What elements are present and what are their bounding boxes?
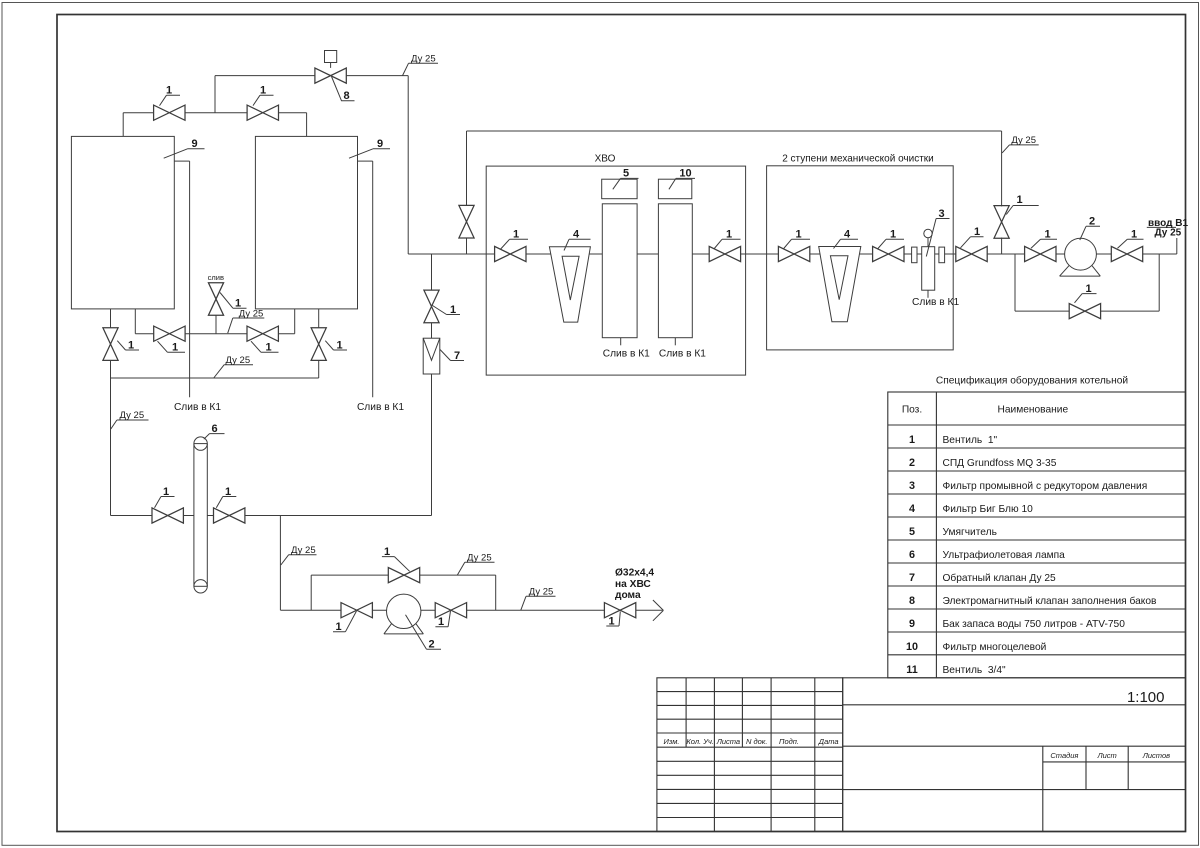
svg-text:2: 2 <box>1089 216 1095 228</box>
svg-text:Ду 25: Ду 25 <box>1011 135 1036 146</box>
svg-text:9: 9 <box>191 138 197 150</box>
label leader 1 (after inlet pump) <box>1118 239 1144 248</box>
valve 1 (lamp line right) <box>214 508 245 523</box>
wire: fill line y=75.6 <box>215 75 408 77</box>
label leader 1 (lamp left) <box>155 497 175 508</box>
svg-text:4: 4 <box>573 229 580 241</box>
wire: drop to house pump line x=280.4 <box>279 516 281 611</box>
svg-text:4: 4 <box>909 503 915 515</box>
label leader 8 <box>332 77 355 101</box>
wire: left drain to sewer <box>189 161 191 397</box>
label leader 10 <box>669 178 695 189</box>
svg-text:2: 2 <box>909 457 915 469</box>
valve 1 (after house pump) <box>435 603 466 618</box>
svg-text:1: 1 <box>172 342 178 354</box>
spec table outline <box>888 392 1186 678</box>
svg-text:Фильтр промывной с редкутором: Фильтр промывной с редкутором давления <box>943 481 1148 492</box>
wire: left tank top riser <box>122 113 124 137</box>
wire: inlet bypass line y=311.1 <box>1015 310 1159 312</box>
UV lamp 6 top cap <box>194 437 207 450</box>
wire: right drain to sewer <box>372 161 374 397</box>
svg-text:7: 7 <box>909 572 915 584</box>
title block left stamp outline <box>657 678 843 832</box>
svg-text:Поз.: Поз. <box>902 404 922 415</box>
valve 1 (lamp line left) <box>152 508 183 523</box>
label leader 1 (mech middle) <box>878 239 905 249</box>
svg-text:6: 6 <box>909 549 915 561</box>
svg-text:9: 9 <box>377 138 383 150</box>
wire: water inlet entry x=1176.8 <box>1176 238 1178 254</box>
svg-text:1: 1 <box>1131 229 1137 241</box>
svg-text:1: 1 <box>384 546 390 558</box>
svg-text:Слив в К1: Слив в К1 <box>357 402 404 413</box>
valve 1 (top manifold right) <box>247 105 278 120</box>
svg-text:Ду 25: Ду 25 <box>529 587 554 598</box>
wire: column 10 drain stub <box>674 338 676 346</box>
label leader 1 (XBO inlet) <box>501 239 528 249</box>
drain valve 1 (sliv) vertical <box>208 283 223 316</box>
svg-text:Стадия: Стадия <box>1050 751 1078 760</box>
filter 4 Big Blue (mech) body <box>819 247 861 322</box>
svg-text:1: 1 <box>163 486 169 498</box>
svg-text:Вентиль 1": Вентиль 1" <box>943 435 998 446</box>
flush filter 3 gauge <box>924 229 932 237</box>
check valve 7 body <box>423 338 440 374</box>
label leader 2 (inlet pump) <box>1080 226 1100 240</box>
spec table row lines <box>888 425 1186 655</box>
svg-text:3: 3 <box>909 480 915 492</box>
svg-text:Ду 25: Ду 25 <box>467 552 492 563</box>
wire: top bypass riser x=1001.6 <box>1001 131 1003 254</box>
svg-text:1: 1 <box>438 616 444 628</box>
wire: left tank bottom stub to vertical valve <box>110 309 112 328</box>
spec table column divider <box>935 392 937 678</box>
svg-text:Ø32х4,4: Ø32х4,4 <box>615 568 654 579</box>
XBO box <box>486 166 745 375</box>
svg-text:1: 1 <box>336 339 342 351</box>
svg-text:Слив в К1: Слив в К1 <box>912 297 959 308</box>
valve 1 (before house pump) <box>341 603 372 618</box>
svg-text:1: 1 <box>335 621 341 633</box>
valve 1 (house bypass) <box>388 568 419 583</box>
wire: bypass riser x=466.5 <box>466 131 468 254</box>
valve 1 (after mech box) <box>956 246 987 261</box>
stadia column verticals <box>1043 746 1128 831</box>
label leader Du25 (cross manifold) <box>228 318 265 333</box>
svg-text:на ХВС: на ХВС <box>615 579 651 590</box>
svg-text:1: 1 <box>128 339 134 351</box>
label leader 1 (sliv valve) <box>220 293 247 309</box>
label leader 7 (check valve) <box>440 350 464 361</box>
flush filter 3 right flange <box>939 247 945 263</box>
label leader Du25 (house bypass) <box>457 562 494 575</box>
filter 4 (mech) inner element <box>830 256 848 300</box>
wire: right vertical to lower manifold <box>318 360 320 378</box>
svg-text:Обратный клапан Ду 25: Обратный клапан Ду 25 <box>943 572 1057 584</box>
pump 2 (Grundfoss MQ house) <box>387 594 421 628</box>
svg-text:2 ступени механической очистки: 2 ступени механической очистки <box>782 154 934 165</box>
svg-text:1: 1 <box>1085 283 1091 295</box>
label leader Du25 top <box>403 63 439 75</box>
svg-text:8: 8 <box>909 595 915 607</box>
arrow to house supply <box>653 600 664 621</box>
wire: house bypass line y=575.1 <box>311 574 496 576</box>
label leader 1 (lamp right) <box>216 497 236 508</box>
svg-text:Вентиль 3/4": Вентиль 3/4" <box>943 665 1007 676</box>
svg-text:1: 1 <box>1044 229 1050 241</box>
wire: lower manifold y=378 <box>111 377 319 379</box>
svg-text:ХВО: ХВО <box>595 154 616 165</box>
label leader Du25 (drop to house line) <box>281 555 317 565</box>
valve 8 actuator box <box>325 51 337 63</box>
softener column 5 cap <box>602 179 637 199</box>
svg-text:Бак запаса воды 750 литров - A: Бак запаса воды 750 литров - ATV-750 <box>943 619 1126 630</box>
svg-text:1: 1 <box>265 342 271 354</box>
label leader 1 (XBO outlet) <box>714 239 741 249</box>
svg-text:10: 10 <box>679 168 691 180</box>
valve 1 (XBO inlet) <box>495 246 526 261</box>
svg-text:8: 8 <box>343 90 349 102</box>
svg-text:1: 1 <box>909 434 915 446</box>
svg-text:Ду 25: Ду 25 <box>411 54 436 65</box>
svg-text:Кол. Уч.: Кол. Уч. <box>686 737 714 746</box>
valve 1 vertical (left tank drain) <box>103 328 118 361</box>
wire: left tank stub to cross manifold <box>134 309 136 334</box>
svg-text:Слив в К1: Слив в К1 <box>659 348 706 359</box>
svg-text:1:100: 1:100 <box>1127 689 1165 706</box>
svg-text:10: 10 <box>906 641 918 653</box>
wire: branch down from main line x=431.5 <box>431 254 433 290</box>
valve 1 vertical (right tank drain) <box>311 328 326 361</box>
svg-text:6: 6 <box>211 423 217 435</box>
svg-text:1: 1 <box>974 226 980 238</box>
svg-text:Фильтр Биг Блю 10: Фильтр Биг Блю 10 <box>943 504 1034 515</box>
wire: main line y=254 <box>408 253 1177 255</box>
electromagnetic valve 8 body <box>315 68 346 83</box>
svg-text:Наименование: Наименование <box>997 404 1068 415</box>
svg-text:1: 1 <box>166 85 172 97</box>
label leader 1 (before house pump) <box>333 611 357 632</box>
label leader 4 (XBO filter) <box>564 239 591 250</box>
svg-text:1: 1 <box>1016 194 1022 206</box>
valve 1 (cross manifold left) <box>154 326 185 341</box>
label leader 9 right <box>349 149 390 158</box>
label leader 2 (house pump) <box>406 615 442 650</box>
label leader 1 (top manifold left) <box>160 95 181 105</box>
svg-text:5: 5 <box>909 526 915 538</box>
label leader 4 (mech filter) <box>834 239 859 248</box>
tank 9 left (ATV-750) <box>71 136 174 309</box>
valve 1 vertical (XBO bypass) <box>459 205 474 238</box>
valve 1 (cross manifold right) <box>247 326 278 341</box>
svg-text:Ультрафиолетовая лампа: Ультрафиолетовая лампа <box>943 549 1066 561</box>
svg-text:1: 1 <box>726 229 732 241</box>
label leader 1 (after mech box) <box>961 237 984 248</box>
multipurpose filter column 10 body <box>658 204 692 338</box>
valve 1 (mech middle) <box>873 246 904 261</box>
wire: column 5 drain stub <box>620 338 622 346</box>
valve 1 vertical (before check valve) <box>424 290 439 323</box>
wire: drop from fill line to manifold x=215 <box>214 76 216 113</box>
svg-text:1: 1 <box>450 304 456 316</box>
wire: right tank top riser <box>306 113 308 137</box>
label leader 5 <box>613 178 639 189</box>
label leader Du25 (left drop) <box>111 420 149 429</box>
label leader 1 (top manifold right) <box>253 95 274 105</box>
svg-text:Слив в К1: Слив в К1 <box>174 402 221 413</box>
svg-text:9: 9 <box>909 618 915 630</box>
wire: top fill manifold y=112.7 <box>123 112 306 114</box>
svg-text:Фильтр многоцелевой: Фильтр многоцелевой <box>943 642 1047 653</box>
flush filter 3 left flange <box>912 247 917 263</box>
label leader 1 (cross manifold left) <box>158 341 186 352</box>
underline vvod B1 <box>1147 226 1176 228</box>
valve 1 (XBO outlet) <box>709 246 740 261</box>
svg-text:Ду 25: Ду 25 <box>226 355 251 366</box>
title block main box <box>843 678 1186 832</box>
wire: vertical feed x=408.2 from fill line to main line <box>407 76 409 254</box>
valve 1 (after inlet pump) <box>1111 246 1142 261</box>
label leader 3 (flush filter) <box>926 219 949 257</box>
svg-text:Подп.: Подп. <box>779 737 799 746</box>
wire: check valve down to lamp line <box>431 374 433 516</box>
left stamp verticals top part <box>686 678 815 832</box>
label leader 1 (right vertical valve) <box>325 341 347 350</box>
svg-text:дома: дома <box>615 590 641 601</box>
wire: left vertical main down x=110.5 <box>110 360 112 515</box>
svg-text:7: 7 <box>454 350 460 362</box>
wire: right tank stub to cross manifold <box>294 309 296 334</box>
stadia header underline <box>1043 761 1186 763</box>
wire: right tank stub to vertical valve <box>318 309 320 328</box>
multipurpose filter column 10 cap <box>658 179 691 199</box>
label leader 1 (house bypass) <box>382 557 410 572</box>
label leader 1 (after house pump) <box>435 611 450 627</box>
label leader 6 <box>204 434 225 440</box>
svg-text:СПД Grundfoss MQ 3-35: СПД Grundfoss MQ 3-35 <box>943 458 1057 469</box>
filter 4 (XBO) inner element <box>562 256 579 300</box>
valve 8 actuator stem <box>330 63 332 68</box>
label leader 1 (house line end) <box>606 612 620 627</box>
svg-text:5: 5 <box>623 168 629 180</box>
label leader 1 (inlet bypass) <box>1075 294 1097 303</box>
svg-text:N док.: N док. <box>746 737 767 746</box>
svg-text:Электромагнитный клапан заполн: Электромагнитный клапан заполнения баков <box>943 595 1157 607</box>
wire: sliv valve stub <box>215 315 217 333</box>
check valve 7 inner V <box>423 338 440 360</box>
svg-text:Изм.: Изм. <box>664 737 680 746</box>
valve 1 (inlet bypass) <box>1069 304 1100 319</box>
svg-text:Умягчитель: Умягчитель <box>943 527 997 538</box>
wire: house bypass risers <box>311 575 496 610</box>
label leader 9 left <box>164 149 205 158</box>
main box horizontals <box>843 705 1186 790</box>
label leader Du25 (lower manifold) <box>214 365 253 378</box>
svg-text:2: 2 <box>428 639 434 651</box>
svg-text:1: 1 <box>608 616 614 628</box>
softener column 5 body <box>602 204 637 338</box>
flush filter 3 body <box>922 247 935 291</box>
svg-text:4: 4 <box>844 229 851 241</box>
valve 1 (before inlet pump) <box>1025 246 1056 261</box>
svg-text:Листа: Листа <box>716 737 740 746</box>
svg-text:3: 3 <box>938 208 944 220</box>
label leader 1 (top bypass valve) <box>1006 206 1038 215</box>
label leader Du25 (house line) <box>521 596 556 610</box>
wire: filter 3 drain stub <box>927 290 929 298</box>
svg-text:1: 1 <box>890 229 896 241</box>
svg-text:Дата: Дата <box>818 737 839 746</box>
valve 1 (mech inlet) <box>778 246 809 261</box>
UV lamp 6 tube <box>194 444 207 587</box>
wire: cross manifold y=333.7 <box>135 333 294 335</box>
svg-text:Лист: Лист <box>1096 751 1116 760</box>
label leader 1 (cross manifold right) <box>251 341 279 352</box>
svg-text:11: 11 <box>906 664 917 676</box>
svg-text:Спецификация оборудования коте: Спецификация оборудования котельной <box>936 374 1128 386</box>
wire: house pump line y=610.2 <box>280 609 662 611</box>
wire: lamp line y=515.5 <box>111 515 432 517</box>
label leader 1 (branch valve) <box>433 306 461 315</box>
tank right drain tube connector <box>358 160 373 162</box>
wire: inlet bypass risers <box>1015 254 1159 311</box>
tank 9 right (ATV-750) <box>255 136 357 309</box>
UV lamp 6 bottom cap <box>194 580 207 593</box>
svg-text:1: 1 <box>260 85 266 97</box>
svg-text:Ду 25: Ду 25 <box>291 545 316 556</box>
svg-text:1: 1 <box>795 229 801 241</box>
svg-text:Листов: Листов <box>1142 751 1170 760</box>
valve 1 vertical (top bypass right) <box>994 206 1009 239</box>
svg-text:Ду 25: Ду 25 <box>120 410 145 421</box>
wire: between valve and check valve <box>431 323 433 339</box>
tank left drain tube connector <box>174 160 189 162</box>
valve 1 (top manifold left) <box>154 105 185 120</box>
valve 1 (house line end) <box>604 603 635 618</box>
mechanical cleaning box <box>767 166 954 350</box>
filter 4 Big Blue (XBO) body <box>549 247 590 322</box>
label leader 1 (mech inlet) <box>783 239 810 249</box>
svg-text:1: 1 <box>513 229 519 241</box>
svg-text:Ду 25: Ду 25 <box>1155 228 1182 239</box>
svg-text:Слив в К1: Слив в К1 <box>603 348 650 359</box>
svg-text:1: 1 <box>225 486 231 498</box>
left stamp horizontals <box>657 692 843 818</box>
label leader Du25 (top bypass right) <box>1002 145 1039 153</box>
svg-text:слив: слив <box>208 273 224 282</box>
label leader 1 (left vertical valve) <box>117 341 139 350</box>
wire: top bypass line y=131 <box>467 130 1002 132</box>
pump 2 (Grundfoss MQ inlet) <box>1065 238 1097 270</box>
svg-text:Ду 25: Ду 25 <box>239 308 264 319</box>
label leader 1 (before inlet pump) <box>1031 239 1057 248</box>
